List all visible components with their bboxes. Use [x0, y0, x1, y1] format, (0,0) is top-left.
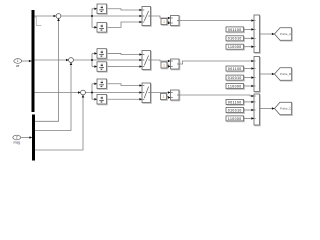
- junction dot: [91, 15, 93, 17]
- wire B stub to relay2: [92, 66, 97, 68]
- svg-text:Pulse_C: Pulse_C: [280, 107, 292, 111]
- svg-text:1: 1: [163, 20, 165, 24]
- wire B mux to outport: [260, 73, 275, 75]
- comparator block C: [171, 90, 180, 101]
- demux1 shadow stub: [35, 17, 42, 26]
- wire C junction branch: [91, 84, 93, 100]
- constant square A: [161, 19, 168, 26]
- sign block C1: [97, 79, 107, 89]
- sign block B1: [97, 49, 107, 59]
- mux block B: [254, 57, 260, 93]
- wire A sum to switch: [61, 15, 142, 17]
- constant vector B1: [226, 66, 244, 72]
- constant vector A3: [226, 44, 244, 50]
- svg-text:110000: 110000: [228, 45, 242, 49]
- wire B junction branch: [91, 53, 93, 66]
- wire B const1 to mux: [244, 68, 255, 70]
- switch block B: [142, 51, 151, 71]
- wire A stub to relay1: [92, 8, 97, 10]
- wire C relay1 to switch: [107, 84, 143, 86]
- wire C const1 to mux: [244, 101, 255, 103]
- wire B const3 to mux: [244, 85, 255, 87]
- outport tag Pulse_B: [275, 68, 293, 81]
- wire C relay2 to switch: [107, 98, 143, 100]
- wire B demux1 to sum: [35, 59, 69, 61]
- wire A stub to relay2: [92, 26, 97, 28]
- wire B const2 to mux: [244, 77, 255, 79]
- constant vector C2: [226, 108, 244, 114]
- svg-text:2: 2: [16, 136, 18, 140]
- wire A comparator to mux: [179, 20, 254, 22]
- svg-text:Pulse_B: Pulse_B: [280, 72, 291, 76]
- wire A demux2 feed to sum: [35, 18, 59, 121]
- svg-text:010010: 010010: [228, 37, 242, 41]
- constant vector C1: [226, 99, 244, 105]
- constant vector A1: [226, 27, 244, 33]
- constant vector C3: [226, 116, 244, 122]
- wire A junction branch: [91, 9, 93, 28]
- inport 1 (wr): [14, 59, 22, 68]
- svg-text:010010: 010010: [228, 76, 242, 80]
- sign block A1: [97, 4, 107, 14]
- comparator block A: [171, 16, 180, 27]
- sum junction circle B: [69, 58, 74, 63]
- junction dot: [91, 59, 93, 61]
- svg-text:mag: mag: [13, 141, 20, 145]
- wire B demux2 feed to sum: [35, 62, 71, 130]
- wire A const3 to mux: [244, 46, 255, 48]
- wire C comparator to mux: [179, 95, 254, 96]
- wire in1 to demux1: [22, 60, 32, 62]
- wire in2 to demux2: [21, 137, 32, 139]
- svg-text:010010: 010010: [228, 108, 242, 112]
- wire A const2 to mux: [244, 37, 255, 39]
- sign block A2: [97, 23, 107, 33]
- wire C switch to comparator: [151, 92, 171, 94]
- wire C demux1 to sum: [35, 92, 81, 94]
- wire C sum to switch: [85, 92, 142, 94]
- svg-text:001100: 001100: [228, 67, 242, 71]
- wire B comparator to mux: [179, 61, 254, 64]
- wire B switch to comparator: [151, 60, 171, 61]
- svg-text:110000: 110000: [228, 84, 242, 88]
- svg-text:001100: 001100: [228, 28, 242, 32]
- sum junction circle C: [81, 90, 86, 95]
- wire C const3 to mux: [244, 117, 255, 119]
- sum junction circle A: [56, 14, 61, 19]
- wire C square to comparator: [167, 97, 171, 98]
- wire C mux to outport: [260, 108, 275, 110]
- comparator block B: [171, 59, 180, 70]
- switch block A: [142, 7, 151, 27]
- wire A mux to outport: [260, 33, 275, 35]
- svg-text:110000: 110000: [228, 117, 242, 121]
- svg-text:Pulse_A: Pulse_A: [280, 32, 291, 36]
- svg-text:1: 1: [163, 64, 165, 68]
- wire B relay2 to switch: [107, 66, 143, 68]
- svg-text:1: 1: [17, 59, 19, 63]
- wire B stub to relay1: [92, 52, 97, 54]
- wire A relay1 to switch: [107, 9, 143, 10]
- sign block C2: [97, 95, 107, 105]
- constant vector A2: [226, 36, 244, 42]
- mux block C: [254, 94, 260, 126]
- demux bar 1: [32, 10, 35, 112]
- wire C stub to relay2: [92, 98, 97, 100]
- wire B relay1 to switch: [107, 53, 143, 54]
- constant vector B3: [226, 84, 244, 90]
- sign block B2: [97, 62, 107, 72]
- constant vector B2: [226, 75, 244, 81]
- switch block C: [142, 83, 151, 103]
- demux bar 2: [32, 115, 35, 161]
- wire C demux2 feed to sum: [35, 95, 83, 150]
- junction dot: [91, 92, 93, 94]
- wire B square to comparator: [167, 65, 171, 67]
- wire C const2 to mux: [244, 109, 255, 111]
- wire A relay2 to switch: [107, 22, 143, 27]
- wire C stub to relay1: [92, 83, 97, 85]
- constant square B: [161, 62, 168, 69]
- inport 2 (mag): [13, 135, 21, 145]
- svg-text:1: 1: [162, 95, 164, 99]
- wire A const1 to mux: [244, 28, 255, 30]
- constant square C: [161, 94, 168, 101]
- outport tag Pulse_A: [275, 28, 293, 41]
- svg-text:001100: 001100: [228, 100, 242, 104]
- wire A switch to comparator: [151, 16, 171, 18]
- mux block A: [254, 15, 260, 53]
- wire B sum to switch: [73, 59, 142, 61]
- wire A demux1 to sum: [35, 15, 57, 17]
- outport tag Pulse_C: [275, 102, 293, 115]
- wire A square to comparator: [167, 22, 171, 24]
